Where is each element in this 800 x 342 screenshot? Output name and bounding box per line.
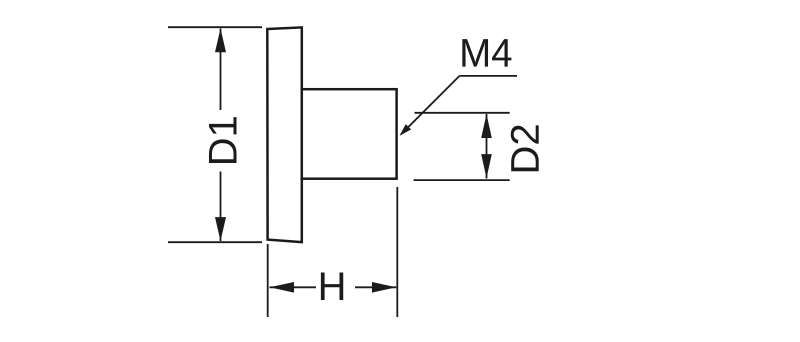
dimension D2 down arrowhead — [481, 154, 492, 178]
dimension H right extension line — [396, 187, 398, 317]
dimension D1 top extension line — [168, 26, 262, 28]
M4 leader underline — [460, 75, 518, 77]
label H — [321, 272, 343, 300]
dimension D1 down arrowhead — [215, 217, 226, 241]
dimension D2 dimension line — [486, 114, 488, 179]
dimension H left extension line — [267, 244, 269, 317]
dimension D2 bottom extension line — [414, 179, 510, 181]
M4 leader diagonal line — [401, 76, 459, 134]
dimension D1 up arrowhead — [215, 28, 226, 52]
M4 leader arrowhead — [400, 124, 412, 136]
dimension D1 dimension line lower segment — [220, 172, 222, 242]
dimension H dimension line left segment — [270, 286, 317, 288]
knob body outline — [302, 89, 397, 179]
label D1 (rotated) — [209, 117, 237, 163]
label M4 — [462, 39, 511, 67]
dimension H right arrowhead — [372, 282, 396, 293]
label D2 (rotated) — [511, 125, 539, 171]
dimension H dimension line right segment — [355, 286, 396, 288]
dimension D1 bottom extension line — [168, 241, 262, 243]
dimension D2 top extension line — [415, 112, 510, 114]
dimension D1 dimension line upper segment — [220, 29, 222, 111]
knob flange outline — [267, 27, 302, 242]
dimension D2 up arrowhead — [481, 114, 492, 138]
dimension H left arrowhead — [270, 282, 294, 293]
